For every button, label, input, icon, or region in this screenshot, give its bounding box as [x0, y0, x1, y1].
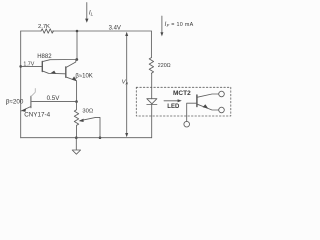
wire top rail right segment: [53, 30, 152, 32]
svg-text:3.4V: 3.4V: [109, 26, 121, 32]
current arrow IF: [161, 16, 163, 33]
svg-text:LED: LED: [167, 104, 180, 110]
wire LED to bottom rail: [151, 105, 153, 138]
phototransistor collector: [198, 94, 219, 97]
node dot collector: [75, 58, 78, 61]
wire 0.5V node: [31, 101, 77, 103]
svg-text:IF = 10 mA: IF = 10 mA: [165, 22, 194, 28]
node base Q1 junction dot: [19, 65, 22, 68]
node 0.5V junction dot: [75, 100, 78, 103]
node dot R3 bottom: [75, 136, 78, 139]
wire Q1 base: [21, 65, 42, 67]
light arrow: [164, 100, 179, 102]
svg-text:β≈10K: β≈10K: [75, 74, 92, 80]
svg-text:220Ω: 220Ω: [158, 63, 171, 69]
wire top rail left segment: [21, 30, 41, 32]
svg-text:30Ω: 30Ω: [82, 109, 93, 115]
svg-text:β≈200: β≈200: [6, 99, 24, 106]
transistor Q1 bar: [41, 61, 43, 71]
current arrow IL: [86, 3, 88, 20]
phototransistor U1 bar: [196, 95, 198, 107]
voltage arrow VA: [126, 34, 128, 136]
svg-text:2.7K: 2.7K: [38, 24, 50, 30]
transistor Q2 emitter: [66, 77, 76, 101]
wire bottom rail: [21, 137, 152, 139]
wire R2 to LED: [151, 74, 153, 99]
svg-text:VA: VA: [122, 80, 129, 86]
svg-text:CNY17-4: CNY17-4: [24, 112, 50, 119]
svg-text:1.7V: 1.7V: [23, 61, 34, 67]
node dot top: [76, 30, 79, 33]
transistor Q3 CNY17-4 bar: [30, 96, 32, 107]
terminal collector: [219, 91, 225, 97]
terminal emitter: [219, 107, 225, 113]
diode LED: [147, 99, 157, 104]
resistor R3 30ohm: [74, 102, 78, 138]
resistor R2 220ohm: [149, 58, 153, 74]
transistor Q3 collector: [31, 89, 35, 97]
svg-text:H882: H882: [37, 54, 52, 60]
transistor Q1 emitter: [43, 71, 65, 74]
terminal base: [184, 121, 190, 127]
transistor Q1 collector: [43, 60, 77, 62]
svg-text:IL: IL: [89, 10, 94, 17]
transistor Q3 emitter: [21, 107, 31, 112]
phototransistor base lead: [187, 103, 197, 121]
svg-text:0.5V: 0.5V: [47, 95, 61, 102]
node dot wiper bottom: [99, 136, 102, 139]
wire collector node vertical: [76, 31, 78, 60]
wire left rail: [20, 31, 22, 138]
resistor R1 2.7K: [41, 29, 54, 33]
transistor Q2 bar: [65, 67, 67, 77]
svg-text:MCT2: MCT2: [173, 90, 191, 97]
wiper arrow of R3: [81, 117, 101, 137]
ground: [75, 138, 77, 150]
optocoupler dashed box MCT2: [136, 87, 231, 116]
wire right branch top: [150, 31, 152, 58]
phototransistor emitter: [198, 104, 219, 110]
transistor Q2 collector: [66, 60, 75, 68]
